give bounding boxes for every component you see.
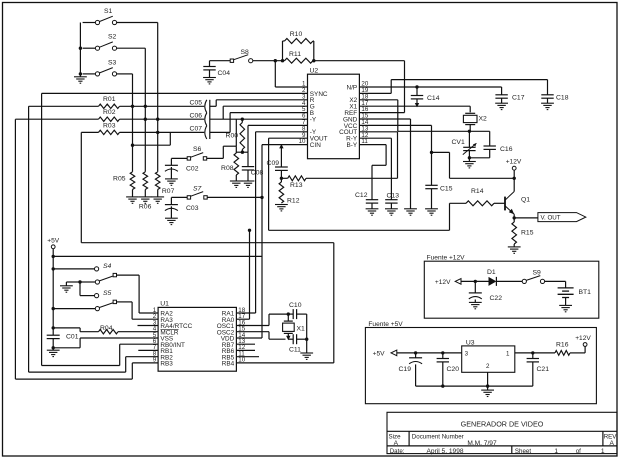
wire R14 feed riser [450,203,467,230]
crystal X2 [463,113,487,131]
junction S2 common [79,47,82,50]
junction C15 top [430,151,433,154]
resistor R04 [53,325,158,334]
capacitor C11 [288,334,306,353]
svg-text:U2: U2 [310,68,319,75]
svg-text:Q1: Q1 [521,196,530,203]
svg-text:+5V: +5V [373,351,386,358]
regulator U3 [462,339,515,372]
svg-text:C14: C14 [427,95,440,102]
wire S4 common to RA2 [117,275,158,313]
wire R10-R11 right link [312,41,315,61]
wire S2 to R06 column [117,48,146,172]
wire R13 left stub [281,177,287,179]
svg-text:R01: R01 [103,96,116,103]
wire S7 to CIN column [208,196,263,198]
power +5V [47,238,60,336]
svg-text:C22: C22 [490,295,503,302]
power +12V at Q1 [506,159,522,179]
junction S3 column jog [131,144,134,147]
op-amp U2 video encoder [299,68,369,159]
wire R02 left riser [14,119,16,379]
resistor R00 [226,119,245,152]
capacitor C19 [399,353,423,386]
svg-text:C21: C21 [537,366,550,373]
svg-text:R02: R02 [103,109,116,116]
capacitor C13 [385,192,399,209]
svg-text:C20: C20 [447,366,460,373]
wire U2 pin7 riser [248,125,308,152]
junction S7 on CIN column [260,196,263,199]
svg-text:R07: R07 [162,188,175,195]
junction C21 top [531,351,534,354]
resistor R15 [512,218,534,244]
svg-text:S6: S6 [193,146,202,153]
svg-text:S8: S8 [241,49,250,56]
junction R11 right [312,59,315,62]
junction R00 top [241,118,244,121]
capacitor C14 [411,87,440,105]
wire U2 pin13 COUT to R13 [306,132,398,179]
wire U2 pin14 VCC [359,125,431,152]
svg-text:10: 10 [238,357,245,364]
svg-text:R08: R08 [221,165,234,172]
wire OSC1 to X1 top [236,314,288,325]
wire S3 to R05 column [117,74,133,172]
svg-text:C03: C03 [186,205,199,212]
svg-text:+12V: +12V [506,159,522,166]
wire U2 pin11 B-Y to C12 [359,145,386,200]
junction U3 ground bus [486,384,489,387]
junction C20 top [441,351,444,354]
ground R06 [139,197,152,203]
capacitor C10 [288,302,306,319]
capacitor C17 [495,87,524,103]
wire R03 left riser [80,132,82,242]
ground C17 [495,103,508,109]
svg-text:R16: R16 [556,341,569,348]
svg-text:CIN: CIN [310,142,321,149]
ground R07 [151,197,164,203]
resistor R07 [155,172,174,197]
resistor R12 [279,178,300,204]
junction C20 bottom [441,384,444,387]
svg-text:U1: U1 [160,301,169,308]
svg-text:U3: U3 [466,339,475,346]
switch S5 [95,290,117,311]
wire RB5 stub [236,356,259,358]
junction C22 top [474,280,477,283]
resistor R13 [288,176,306,189]
ground BT1 [559,305,572,311]
wire U2 pin10 CIN [262,145,308,338]
switch S2 [95,34,116,51]
svg-text:X1: X1 [297,325,306,332]
ground R08 [230,181,243,187]
svg-text:S5: S5 [103,290,112,297]
svg-text:BT1: BT1 [579,289,592,296]
wire S8 to REF riser [253,60,405,62]
junction R03-S1 column [156,131,159,134]
capacitor C21 [527,353,550,386]
svg-text:C02: C02 [186,166,199,173]
crystal X1 [283,314,305,339]
switch S9 [522,269,544,283]
svg-text:R06: R06 [139,204,152,211]
wire U3 output [515,352,555,354]
wire X1 right riser [306,314,308,353]
junction C01 bottom [52,346,55,349]
svg-text:C07: C07 [190,126,203,133]
block Fuente +12V [424,255,599,319]
junction RA0 on VOUT line [248,229,251,232]
wire U2 pin20 N/P line [359,86,501,88]
svg-text:S7: S7 [193,185,202,192]
svg-text:S1: S1 [104,8,113,15]
svg-text:C16: C16 [500,146,513,153]
wire REF riser to U2 pin16 [359,61,404,113]
svg-text:1: 1 [601,448,605,455]
ground S1-S3 common [74,77,87,83]
wire RB6 stub [236,349,255,351]
capacitor C07 [190,126,207,139]
wire C07 to U2 pin5 [210,113,308,133]
capacitor C01 [47,334,79,351]
capacitor C09 [267,147,288,178]
junction R00 bottom [241,151,244,154]
ground R15 [508,244,521,253]
wire S6 to pin6 line [207,119,236,158]
svg-text:R05: R05 [113,176,126,183]
wire U2 pin15 GND [359,119,410,209]
junction X2 bottom [468,130,471,133]
svg-text:April 5, 1998: April 5, 1998 [427,448,464,455]
svg-text:R15: R15 [521,230,534,237]
svg-text:+12V: +12V [435,279,451,286]
junction Q1 emitter node [513,216,516,219]
resistor R05 [113,172,135,197]
capacitor C18 [541,80,568,104]
variable capacitor CV1 [452,131,477,158]
svg-text:N/P: N/P [347,84,358,91]
svg-text:Date:: Date: [390,448,405,455]
wire OSC2 to X1 bottom [236,332,285,340]
svg-text:Fuente +12V: Fuente +12V [427,255,466,262]
junction S5 +5V [52,307,55,310]
switch S1 [95,8,116,25]
svg-text:R14: R14 [471,188,484,195]
svg-text:Sheet: Sheet [515,448,531,455]
svg-text:C15: C15 [440,185,453,192]
wire S1 to R07 column [117,23,158,172]
capacitor C03 [165,197,199,211]
svg-text:of: of [576,448,581,455]
svg-text:R13: R13 [290,182,303,189]
svg-text:V. OUT: V. OUT [541,215,561,222]
svg-text:D1: D1 [487,269,496,276]
ground C03 [165,206,178,224]
svg-text:S9: S9 [533,269,542,276]
junction C09-R12-R13 [280,177,283,180]
capacitor C16 [469,131,512,158]
ground U3 [481,390,494,396]
svg-text:C04: C04 [218,70,231,77]
svg-text:CV1: CV1 [452,139,465,146]
battery BT1 [558,288,592,306]
junction R02-S2 column [144,118,147,121]
capacitor C08 [242,152,264,181]
wire U2 pin12 R-Y to C13 [359,138,391,200]
switch S4 [95,263,117,284]
wire RB4 long line [81,243,333,363]
capacitor C12 [355,192,378,209]
resistor R11 [285,51,314,63]
wire R01 left riser [28,106,30,372]
wire U2 pin17 to crystal X2 [359,106,470,112]
junction S3 common [79,72,82,75]
wire S1-S3 common vertical [80,23,95,77]
svg-text:C06: C06 [190,113,203,120]
capacitor C15 [425,152,452,208]
ground C08 [242,181,255,187]
junction +5V branch [52,255,55,258]
ground S4-S5 [60,286,73,292]
wire RB7 stub [236,343,255,345]
capacitor C20 [437,353,460,386]
ground C01 [47,350,60,356]
wire S5 throw1 link [80,295,95,297]
svg-text:C11: C11 [289,347,301,354]
wire U2 pin9 VOUT line [269,138,450,230]
arrow junction X1 bottom [286,336,290,340]
capacitor C22 [469,281,502,302]
svg-text:1: 1 [554,448,558,455]
diode D1 [487,269,522,286]
svg-text:3: 3 [465,351,469,358]
wire S9 to BT1 [545,281,566,288]
svg-text:GENERADOR DE VIDEO: GENERADOR DE VIDEO [461,420,544,429]
svg-text:C17: C17 [512,95,525,102]
resistor R16 [555,341,585,355]
capacitor C06 [190,113,207,126]
arrow junction C14 bottom [415,103,419,107]
wire RA0 riser to VOUT line [236,230,249,319]
svg-text:Document Number: Document Number [412,433,464,440]
resistor R08 [221,146,239,181]
wire R10-R11 left link [283,41,285,61]
resistor R01 [29,96,205,108]
resistor R02 [15,109,204,121]
junction R02-S1 column [156,118,159,121]
svg-text:RB3: RB3 [160,361,173,368]
wire R08 to C08 [236,151,248,153]
wire C06 to U2 pin4 [210,106,308,119]
wire U3 pin2 ground [487,372,489,390]
svg-text:R00: R00 [226,133,239,140]
svg-text:C13: C13 [387,192,400,199]
switch S3 [95,59,116,76]
title block [387,412,617,455]
wire VSS to ground node [53,338,158,348]
wire RB1 stub [138,349,158,351]
capacitor C05-C07 common plate bar [209,100,211,139]
svg-text:-Y: -Y [310,116,317,123]
junction C11 right [305,338,308,341]
ground R05 [126,197,139,203]
power tag +5V output [373,350,462,358]
svg-text:C12: C12 [355,192,368,199]
svg-text:R03: R03 [103,122,116,129]
power +12V in fuente 5V [575,335,591,353]
power tag +12V input [435,279,489,286]
microcontroller U1 [153,301,246,372]
wire VCC to +12V rail [432,152,515,178]
ground C04 [203,78,216,84]
junction R01-S3 column [131,105,134,108]
ground C02 [165,167,178,185]
junction U2 pin1 riser [274,59,277,62]
capacitor C02 [165,158,199,172]
svg-text:Fuente +5V: Fuente +5V [368,321,403,328]
svg-text:A: A [394,440,399,447]
junction +12V collector rail [513,177,516,180]
junction R04 +5V [52,326,55,329]
arrow junction C09 top on CIN line [279,144,283,148]
wire U2 pin8 to U1 RA1 [236,132,307,313]
junction CV1-C16 bottom [468,156,471,159]
svg-text:R11: R11 [289,51,301,58]
svg-text:S3: S3 [108,59,117,66]
svg-text:1: 1 [506,351,510,358]
svg-text:X2: X2 [479,116,488,123]
block Fuente +5V [365,321,596,404]
wire U2 pin19 to C18 [359,80,547,94]
ground CV1 [463,158,476,168]
ground C15 [425,209,438,215]
wire RA4 RTCC stub [138,325,159,327]
capacitor C05 [190,100,207,113]
transistor Q1 [505,178,530,218]
junction C14 top [415,85,418,88]
wire SYNC bus to U2 pin2 [42,93,308,365]
wire S4 throw2 to ground link [66,282,95,296]
output tag V.OUT [514,213,586,222]
switch S8 [230,49,253,63]
wire RB0 wrap from SYNC bus [42,344,159,365]
ground C13 [385,209,398,215]
switch S6 [187,146,207,160]
svg-text:B-Y: B-Y [347,142,358,149]
wire U2 pin1 [275,61,307,87]
junction R01-S2 column [144,105,147,108]
junction switch ground link [78,280,81,283]
svg-text:S2: S2 [108,34,117,41]
svg-text:RB4: RB4 [222,361,235,368]
svg-text:M.M. 7/97: M.M. 7/97 [467,440,497,447]
junction R11 left [281,59,284,62]
wire S5 throw2 to +5V [53,308,95,310]
junction C19 top [414,351,417,354]
svg-text:S4: S4 [103,263,112,270]
junction S4 +5V [52,267,55,270]
resistor R14 [466,188,505,206]
svg-text:C01: C01 [66,334,79,341]
capacitor C04 [203,61,230,78]
wire C05 to U2 pin3 [210,100,308,107]
resistor R06 [139,172,152,211]
svg-text:+12V: +12V [575,335,591,342]
ground R12 [275,205,288,211]
svg-text:A: A [610,440,615,447]
resistor R03 [81,122,204,134]
wire capacitor ground bus [416,385,533,387]
svg-text:C05: C05 [190,100,203,107]
junction X1 top node [287,312,290,315]
wire U2 pin18 to X2 bottom [359,100,469,132]
svg-text:R10: R10 [290,31,303,38]
wire S5 common to RA3 [117,302,158,319]
wire S3 column jog to R03 line [133,132,171,145]
svg-text:2: 2 [486,363,490,370]
ground C12 [366,209,379,215]
svg-text:R12: R12 [287,198,300,205]
ground C18 [541,103,554,109]
switch S7 [187,185,207,199]
svg-text:R04: R04 [100,325,113,332]
svg-text:C19: C19 [399,366,412,373]
wire S4 throw1 to +5V [53,268,94,270]
ground U2 GND pin [404,209,417,215]
wire RB3 wrap from R02 bus [15,363,158,379]
svg-text:+5V: +5V [47,238,60,245]
wire RB2 wrap from R01 bus [29,357,159,372]
ground C22 [469,302,482,308]
svg-text:C18: C18 [556,95,569,102]
svg-text:C10: C10 [289,302,302,309]
resistor R10 [285,31,314,43]
wire +5V branch to VDD [53,256,262,338]
ground X1 [300,353,313,359]
svg-text:10: 10 [299,138,306,145]
